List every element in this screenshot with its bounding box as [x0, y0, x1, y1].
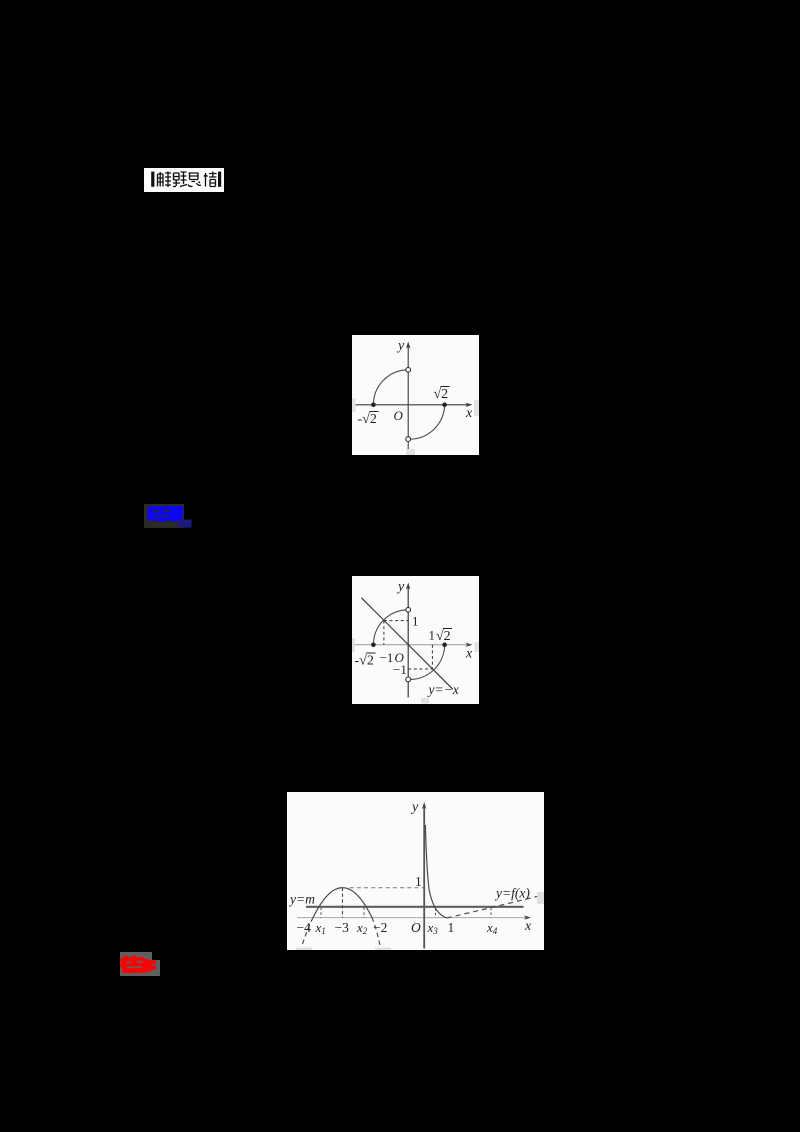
open circle bottom: [406, 437, 411, 442]
line y=-x: [361, 598, 452, 689]
rising dashed branch: [447, 895, 541, 918]
dashed horizontal peak to y-axis: [343, 887, 424, 889]
svg-text:O: O: [394, 408, 404, 423]
red badge lower-right gray extension: [152, 960, 160, 976]
svg-text:-√2: -√2: [355, 654, 374, 669]
svg-text:x: x: [524, 919, 532, 934]
filled dot sqrt2: [442, 643, 447, 648]
svg-text:−4: −4: [297, 920, 312, 935]
svg-text:−2: −2: [373, 920, 387, 935]
filled dot -sqrt2: [371, 403, 376, 408]
label 1 sqrt2: [429, 628, 453, 645]
title box 解题感悟: [144, 168, 224, 192]
dashed guides (1,-1): [408, 645, 432, 669]
svg-text:1: 1: [415, 874, 422, 889]
title glyphs: [144, 168, 224, 192]
blue badge: [144, 504, 184, 528]
arc lower-right quadrant: [408, 405, 444, 439]
figure panel 3: [287, 792, 544, 950]
char 悟: [204, 172, 217, 187]
line y=m: [306, 906, 524, 908]
dashed guides (-1,1): [384, 621, 408, 645]
y-axis: [406, 583, 410, 698]
svg-text:x: x: [465, 406, 473, 421]
filled dot -sqrt2: [371, 643, 376, 648]
dashed vertical at -3: [342, 888, 344, 918]
dashed tick x4: [490, 908, 492, 918]
x-axis: [297, 915, 531, 919]
dashed tick x2: [363, 908, 365, 918]
svg-text:O: O: [411, 920, 421, 935]
hump solid part: [313, 888, 372, 918]
svg-text:√2: √2: [434, 387, 449, 402]
svg-text:y: y: [410, 800, 419, 815]
svg-text:y=m: y=m: [288, 892, 315, 907]
svg-text:y: y: [396, 339, 405, 354]
char 感: [188, 173, 201, 186]
figure panel 2: [352, 576, 479, 704]
svg-text:y: y: [396, 580, 405, 595]
arc upper-left quadrant: [373, 610, 408, 645]
steep curve solid descending: [425, 825, 447, 918]
dashed tick x3: [435, 908, 437, 918]
y-axis: [406, 342, 410, 451]
filled dot sqrt2: [442, 403, 447, 408]
svg-text:O: O: [395, 650, 405, 665]
char 题: [173, 172, 187, 187]
y-axis: [422, 802, 426, 949]
arc lower-right quadrant: [408, 645, 444, 680]
red badge: [120, 952, 152, 976]
svg-text:y=f(x): y=f(x): [494, 886, 530, 901]
label -sqrt2 bottom left: [358, 412, 379, 428]
x-axis: [354, 403, 473, 407]
red ink blob: [120, 955, 156, 973]
blue badge glyphs: [144, 504, 194, 530]
svg-text:1: 1: [429, 628, 436, 643]
figure panel 1: [352, 335, 479, 455]
left bar: [151, 172, 154, 187]
svg-text:√2: √2: [436, 629, 451, 644]
open circle top: [406, 607, 411, 612]
right bar: [218, 172, 221, 187]
edge smudges: [352, 398, 479, 455]
open circle bottom: [406, 677, 411, 682]
blue ink blob: [147, 506, 183, 522]
red badge glyphs: [118, 952, 160, 976]
label sqrt2 top right: [434, 387, 450, 403]
svg-text:−3: −3: [335, 920, 350, 935]
svg-text:1: 1: [412, 614, 419, 629]
x-axis: [355, 643, 473, 647]
svg-text:-√2: -√2: [358, 412, 377, 427]
open circle top: [406, 367, 411, 372]
char 解: [158, 172, 172, 188]
svg-text:y=−x: y=−x: [427, 682, 459, 697]
svg-text:−1: −1: [380, 650, 394, 665]
svg-text:x: x: [465, 647, 473, 662]
edge smudges: [352, 638, 479, 704]
edge smudges: [296, 892, 544, 950]
svg-text:1: 1: [448, 920, 455, 935]
hump right tail dashed: [372, 918, 381, 948]
navy block: [178, 520, 192, 528]
arc upper-left quadrant: [373, 370, 408, 405]
dashed tick x1: [320, 908, 322, 918]
hump left tail dashed: [302, 918, 314, 947]
label -sqrt2: [355, 653, 376, 669]
